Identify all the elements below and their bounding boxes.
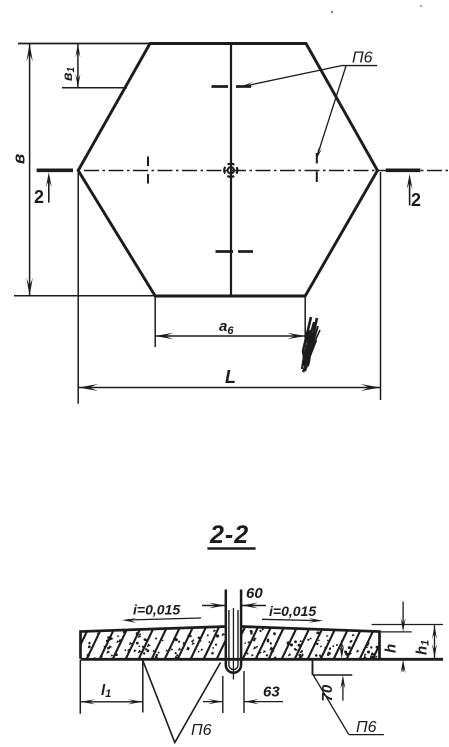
upper loop mark (dash pair) xyxy=(212,85,252,88)
dimension h arrows (outside) xyxy=(402,602,404,626)
svg-text:2-2: 2-2 xyxy=(209,521,249,549)
dimension b1 vertical line with arrows xyxy=(77,44,79,88)
svg-text:П6: П6 xyxy=(356,719,377,736)
svg-text:2: 2 xyxy=(411,190,421,210)
dimension a6 with arrows xyxy=(155,335,305,337)
slot axis line xyxy=(232,608,234,680)
slab bottom line (extends right as extension) xyxy=(81,658,444,661)
dimension l1 with arrows xyxy=(80,701,143,703)
svg-text:i=0,015: i=0,015 xyxy=(133,602,180,618)
leader from P6 to upper loop mark xyxy=(245,66,342,86)
center lifting-hole symbol xyxy=(224,164,237,177)
extension lines 63 xyxy=(222,676,224,713)
dimension h1 (inside arrows) xyxy=(434,625,436,658)
section arrow left xyxy=(48,178,50,203)
bottom step stub xyxy=(312,660,314,676)
loop slot outer U xyxy=(226,590,241,673)
extension line h1 top xyxy=(372,624,443,626)
hexagon slab outline xyxy=(78,44,377,297)
extension line left for L xyxy=(77,172,79,404)
left loop tick (dashed vertical) xyxy=(147,157,149,184)
slope arrow left xyxy=(127,618,201,620)
section cut stroke left xyxy=(37,169,73,173)
dust specks xyxy=(331,11,333,13)
section arrow right xyxy=(409,179,411,205)
dimension 60 arrows xyxy=(202,605,226,607)
extension line right for L xyxy=(380,172,382,400)
dimension B vertical line with arrows xyxy=(29,44,31,296)
extension line h top xyxy=(370,631,411,633)
extension line top left (dimension B) xyxy=(18,43,150,45)
svg-text:i=0,015: i=0,015 xyxy=(269,603,316,619)
extension line for b1 xyxy=(62,87,127,89)
svg-text:2: 2 xyxy=(34,187,44,207)
leader from P6 to right loop tick xyxy=(318,66,347,155)
extension lines for a6 xyxy=(154,297,156,347)
vertical axis of hexagon xyxy=(230,44,232,297)
dimension L with arrows xyxy=(78,387,380,389)
slot whiteout xyxy=(226,620,241,673)
svg-text:П6: П6 xyxy=(352,50,373,67)
slab outline xyxy=(81,627,380,659)
svg-text:L: L xyxy=(225,367,236,387)
ink scribble artifact xyxy=(302,317,320,372)
loop V outline below slab xyxy=(143,661,221,743)
svg-text:60: 60 xyxy=(246,585,263,602)
extension line bottom left (dimension B) xyxy=(14,295,155,297)
slope arrow right xyxy=(262,619,318,620)
section cut stroke right xyxy=(386,169,421,173)
slab hatching xyxy=(60,625,389,661)
right loop tick (dashed vertical) xyxy=(316,153,318,182)
leader P6 right xyxy=(313,675,349,735)
loop rod inner U xyxy=(229,610,238,670)
step horizontal line xyxy=(313,674,353,676)
svg-text:П6: П6 xyxy=(191,722,212,739)
concrete speckles xyxy=(87,628,379,661)
svg-text:в: в xyxy=(10,154,29,164)
horizontal dash-dot centerline xyxy=(84,170,449,172)
svg-text:h: h xyxy=(383,644,400,653)
lower loop mark (dash pair) xyxy=(216,250,254,253)
extension lines l1 xyxy=(79,660,81,714)
dimension 63 arrows (outside) xyxy=(203,701,223,703)
svg-text:63: 63 xyxy=(263,684,280,701)
dimension 70 arrows xyxy=(341,640,343,651)
